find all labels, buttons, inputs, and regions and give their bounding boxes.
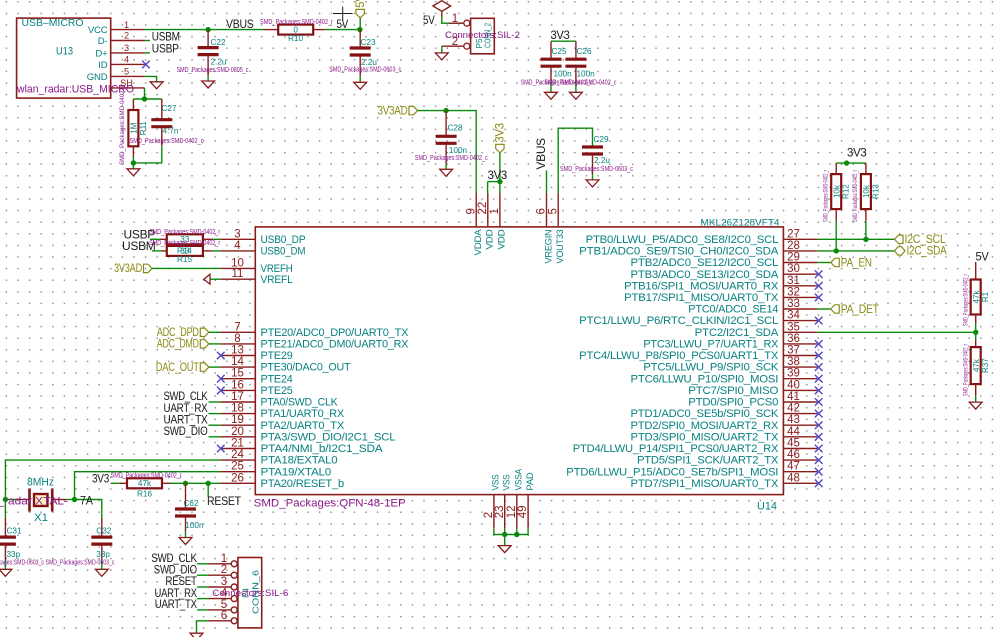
svg-text:PTC6/LLWU_P10/SPI0_MOSI: PTC6/LLWU_P10/SPI0_MOSI: [631, 373, 779, 385]
wire to ground: [132, 163, 134, 169]
no-connect pin44: [815, 433, 823, 441]
ground R37: [969, 402, 982, 409]
svg-text:1: 1: [452, 13, 458, 25]
svg-text:30: 30: [787, 263, 800, 275]
svg-text:R13: R13: [871, 184, 880, 199]
svg-text:PTA1/UART0_RX: PTA1/UART0_RX: [261, 408, 345, 420]
svg-text:3V3: 3V3: [847, 145, 867, 159]
svg-text:23: 23: [494, 506, 506, 519]
ground C22: [202, 81, 215, 88]
svg-text:R1: R1: [981, 291, 990, 302]
wire R12 top pin: [835, 163, 837, 174]
svg-text:UART_TX: UART_TX: [155, 597, 197, 611]
svg-text:13: 13: [231, 345, 244, 357]
global label ADC_DPD: [157, 327, 209, 339]
svg-text:PA_EN: PA_EN: [841, 257, 872, 269]
svg-text:PTA0/SWD_CLK: PTA0/SWD_CLK: [261, 397, 338, 409]
wire VSS2: [504, 529, 506, 535]
wire ADC_DMD to pin8: [209, 343, 221, 345]
no-connect pin42: [815, 410, 823, 418]
wire VOUT33 to C29: [558, 128, 592, 193]
svg-text:17: 17: [231, 391, 244, 403]
svg-text:wlan_radar:XTAL-: wlan_radar:XTAL-: [0, 496, 68, 508]
wire SH node horizontal: [133, 98, 161, 100]
svg-text:14: 14: [231, 356, 244, 368]
wire VBUS to VREGIN: [546, 170, 548, 193]
wire R1 bottom pin: [975, 315, 977, 324]
wire CON6 pin6 to ground: [197, 621, 209, 633]
global label I2C_SDA: [895, 246, 948, 258]
wire C29 to ground: [592, 174, 594, 180]
svg-text:SMD_Packages:SMD-0603_c: SMD_Packages:SMD-0603_c: [329, 65, 401, 74]
ground C32: [95, 569, 108, 576]
wire R14 right pin: [203, 238, 213, 240]
wire UART_TX: [209, 424, 221, 426]
svg-text:ADC_DMD: ADC_DMD: [157, 339, 199, 351]
wire R12 to I2C_SDA: [835, 221, 837, 251]
wire 3V3 to VDD pin1: [499, 153, 501, 193]
svg-text:31: 31: [787, 275, 800, 287]
svg-text:12: 12: [506, 506, 518, 519]
resistor R37: [963, 344, 990, 396]
wire R15 right pin: [203, 250, 213, 252]
svg-text:SMD_Packages:SMD-0402_r: SMD_Packages:SMD-0402_r: [963, 344, 969, 396]
svg-text:38: 38: [787, 356, 800, 368]
svg-text:VBUS: VBUS: [534, 138, 548, 170]
svg-text:VDD: VDD: [485, 229, 496, 249]
svg-text:SMD_Packages:SMD-0402_r: SMD_Packages:SMD-0402_r: [963, 274, 969, 326]
svg-text:D+: D+: [95, 48, 108, 59]
svg-text:SMD_Packages:SMD-0603_c: SMD_Packages:SMD-0603_c: [46, 558, 115, 567]
wire UART_RX: [209, 413, 221, 415]
ground C25: [545, 92, 558, 99]
ground CON1: [435, 53, 448, 60]
svg-text:VSS: VSS: [502, 475, 513, 491]
svg-text:SMD_Packages:SMD-0402_c: SMD_Packages:SMD-0402_c: [130, 136, 204, 145]
wire crystal right pin: [53, 499, 66, 501]
svg-text:SMD_Packages:QFN-48-1EP: SMD_Packages:QFN-48-1EP: [254, 498, 406, 510]
wire R37 bottom pin: [975, 384, 977, 395]
svg-text:5: 5: [547, 208, 559, 214]
ic U14 MKL26Z128VFT4: [220, 193, 817, 529]
CON6 pin numbers: [221, 553, 228, 622]
wire SWD_CLK: [209, 401, 221, 403]
no-connect pin36: [815, 340, 823, 348]
svg-text:22: 22: [477, 202, 489, 215]
no-connect pin38: [815, 363, 823, 371]
wire SWD_CLK CON6: [197, 563, 208, 565]
ground C62: [179, 538, 192, 545]
junction VSS: [502, 532, 507, 537]
svg-text:SMD_Packages:SMD-0402_r: SMD_Packages:SMD-0402_r: [120, 85, 126, 165]
svg-text:R15: R15: [177, 255, 192, 264]
junction crystal right / C32: [72, 497, 77, 502]
svg-text:USB–MICRO: USB–MICRO: [22, 18, 84, 29]
junction crystal left / C31: [3, 497, 8, 502]
svg-text:100n: 100n: [185, 521, 204, 530]
no-connect pin32: [815, 294, 823, 302]
wire C26 to ground: [575, 81, 577, 92]
global label 3V3AD at VREFH: [114, 263, 152, 275]
resistor R14: [167, 234, 203, 244]
svg-text:PTB3/ADC0_SE13/I2C0_SDA: PTB3/ADC0_SE13/I2C0_SDA: [631, 269, 780, 281]
svg-text:C28: C28: [448, 124, 463, 133]
svg-text:4.7n: 4.7n: [163, 126, 179, 135]
svg-text:7: 7: [234, 321, 240, 333]
wire VBUS from U13 pin1 to R10: [145, 29, 265, 31]
svg-text:47k: 47k: [972, 290, 981, 304]
svg-text:PTB0/LLWU_P5/ADC0_SE8/I2C0_SCL: PTB0/LLWU_P5/ADC0_SE8/I2C0_SCL: [586, 234, 779, 246]
svg-text:C25: C25: [552, 47, 567, 56]
wire R11 to junction: [132, 157, 134, 163]
svg-text:SMD_Packages:SMD-0402_r: SMD_Packages:SMD-0402_r: [260, 17, 333, 26]
wire 3V3 to R16: [111, 482, 120, 484]
wire R15 to pin4: [213, 250, 220, 252]
svg-text:PTD2/SPI0_MOSI/UART2_RX: PTD2/SPI0_MOSI/UART2_RX: [631, 420, 779, 432]
wire 5V label to node: [359, 18, 361, 30]
svg-text:PTC1/LLWU_P6/RTC_CLKIN/I2C1_SC: PTC1/LLWU_P6/RTC_CLKIN/I2C1_SCL: [579, 315, 778, 327]
global label 3V3AD: [378, 105, 418, 117]
global label PA_EN: [831, 257, 872, 269]
svg-text:DAC_OUT: DAC_OUT: [156, 362, 199, 374]
global label PA_DET: [831, 304, 879, 316]
wire R37 to ground: [975, 395, 977, 402]
svg-text:47k: 47k: [138, 479, 152, 488]
resistor R16: [127, 478, 162, 488]
svg-text:PTE25: PTE25: [261, 385, 293, 397]
svg-text:6: 6: [221, 610, 227, 622]
svg-text:PTC3/LLWU_P7/UART1_RX: PTC3/LLWU_P7/UART1_RX: [643, 339, 778, 351]
no-connect pin41: [815, 398, 823, 406]
svg-text:4: 4: [124, 55, 129, 65]
ground U13 GND: [150, 82, 163, 89]
capacitor C26: [565, 41, 595, 81]
svg-text:45: 45: [787, 438, 800, 450]
svg-text:USBP: USBP: [152, 42, 179, 56]
svg-text:USB0_DM: USB0_DM: [261, 246, 306, 258]
capacitor C28: [415, 111, 488, 164]
ground C26: [570, 92, 583, 99]
no-connect pin34: [815, 317, 823, 325]
wire RESET label drop: [207, 483, 209, 497]
ground VREFL: [204, 274, 210, 284]
wire R15 left pin: [162, 250, 167, 252]
svg-text:D-: D-: [98, 36, 108, 47]
svg-text:C22: C22: [211, 38, 226, 47]
svg-text:5V: 5V: [976, 250, 989, 264]
no-connect pin45: [815, 445, 823, 453]
global label 5V: [355, 0, 367, 18]
ground C31: [0, 569, 12, 576]
wire crystal left pin: [17, 499, 29, 501]
svg-text:6: 6: [536, 208, 548, 214]
wire R11 bottom pin: [132, 146, 134, 157]
junction VBUS / C22: [205, 27, 210, 32]
global label 3V3 vertical: [495, 123, 507, 153]
svg-text:32: 32: [787, 286, 800, 298]
svg-text:19: 19: [231, 414, 244, 426]
svg-text:wlan_radar:USB_MICRO: wlan_radar:USB_MICRO: [16, 84, 134, 96]
svg-text:PTB17/SPI1_MISO/UART0_TX: PTB17/SPI1_MISO/UART0_TX: [624, 292, 778, 304]
svg-text:1: 1: [124, 20, 129, 30]
svg-text:PTD5/SPI1_SCK/UART2_TX: PTD5/SPI1_SCK/UART2_TX: [637, 455, 778, 467]
svg-text:47k: 47k: [972, 358, 981, 372]
junction RESET/C62: [183, 481, 188, 486]
svg-text:1: 1: [489, 208, 501, 214]
svg-text:PTC5/LLWU_P9/SPI0_SCK: PTC5/LLWU_P9/SPI0_SCK: [643, 362, 778, 374]
svg-text:PTB1/ADC0_SE9/TSI0_CH0/I2C0_SD: PTB1/ADC0_SE9/TSI0_CH0/I2C0_SDA: [579, 246, 779, 258]
connector CON6 Conn_01x06: [209, 553, 289, 628]
svg-text:Connectors:SIL-2: Connectors:SIL-2: [445, 30, 520, 40]
svg-text:49: 49: [517, 506, 529, 519]
svg-text:39: 39: [787, 368, 800, 380]
svg-text:PTD6/LLWU_P15/ADC0_SE7b/SPI1_M: PTD6/LLWU_P15/ADC0_SE7b/SPI1_MOSI: [566, 466, 778, 478]
svg-text:8: 8: [234, 333, 240, 345]
wire R14 left pin: [160, 238, 167, 240]
U13 pin numbers: [120, 20, 133, 88]
svg-text:36: 36: [787, 333, 800, 345]
wire C25 to ground: [550, 81, 552, 92]
wire R13 top pin: [865, 163, 867, 174]
svg-text:C29: C29: [594, 135, 609, 144]
svg-text:5V: 5V: [423, 13, 435, 27]
wire C23 to ground: [359, 76, 361, 82]
svg-text:USB0_DP: USB0_DP: [261, 234, 306, 246]
wire ADC_DPD to pin7: [209, 331, 221, 333]
svg-text:PTA18/EXTAL0: PTA18/EXTAL0: [261, 455, 338, 467]
svg-text:VBUS: VBUS: [226, 17, 254, 31]
resistor R15: [167, 246, 203, 256]
svg-text:PTD1/ADC0_SE5b/SPI0_SCK: PTD1/ADC0_SE5b/SPI0_SCK: [631, 408, 779, 420]
no-connect pin39: [815, 375, 823, 383]
svg-text:PTC7/SPI0_MISO: PTC7/SPI0_MISO: [688, 385, 778, 397]
global label I2C_SCL: [895, 234, 947, 246]
wire R37 top pin: [975, 340, 977, 347]
wire R13 bottom pin: [865, 209, 867, 221]
svg-text:PTE24: PTE24: [261, 373, 293, 385]
wire to ground: [504, 535, 506, 546]
wire RESET net to pin26: [171, 482, 221, 484]
svg-text:3V3: 3V3: [92, 472, 110, 486]
wire 3V3AD to VREFH: [152, 267, 220, 269]
capacitor C25: [541, 41, 573, 81]
svg-text:8MHz: 8MHz: [27, 477, 54, 489]
wire C27 top pin: [161, 99, 163, 120]
wire U13 SH down: [144, 88, 146, 99]
svg-text:10k: 10k: [862, 184, 871, 198]
svg-text:1M: 1M: [130, 122, 139, 133]
svg-text:ID: ID: [98, 60, 107, 71]
wire R10 right pin: [313, 29, 325, 31]
svg-text:PTA4/NMI_b/I2C1_SDA: PTA4/NMI_b/I2C1_SDA: [261, 443, 384, 455]
svg-text:VSS: VSS: [491, 475, 502, 491]
svg-text:VDD: VDD: [497, 229, 508, 249]
svg-text:PTE30/DAC0_OUT: PTE30/DAC0_OUT: [261, 362, 352, 374]
wire DAC_OUT to pin14: [209, 366, 221, 368]
wire C22 to ground: [207, 75, 209, 81]
ground R11/C27: [127, 169, 140, 176]
wire pin35 to R1/R37: [817, 331, 975, 333]
wire VREFL to ground: [210, 278, 220, 280]
svg-text:PTD0/SPI0_PCS0: PTD0/SPI0_PCS0: [688, 397, 778, 409]
junction 3V3/VDD: [497, 179, 502, 184]
svg-text:41: 41: [787, 391, 800, 403]
svg-text:33: 33: [787, 298, 800, 310]
svg-text:43: 43: [787, 414, 800, 426]
wire RESET CON6: [197, 586, 208, 588]
svg-text:3V3: 3V3: [495, 123, 507, 143]
wire I2C_SCL: [817, 238, 894, 240]
svg-text:PTB16/SPI1_MOSI/UART0_RX: PTB16/SPI1_MOSI/UART0_RX: [624, 280, 778, 292]
junction 3V3 power: [844, 160, 849, 165]
svg-text:10k: 10k: [832, 184, 841, 198]
no-connect pin21: [217, 445, 225, 453]
resistor R13: [853, 170, 880, 222]
wire 3V3AD to VDDA: [418, 111, 477, 193]
capacitor C32: [91, 518, 112, 560]
no-connect pin43: [815, 421, 823, 429]
ground CON6: [190, 633, 203, 640]
U14 pin numbers: [231, 202, 800, 519]
svg-text:ADC_DPD: ADC_DPD: [157, 327, 199, 339]
no-connect pin37: [815, 352, 823, 360]
svg-text:PTE20/ADC0_DP0/UART0_TX: PTE20/ADC0_DP0/UART0_TX: [261, 327, 409, 339]
ground C28: [440, 169, 453, 176]
svg-text:GND: GND: [87, 72, 108, 83]
svg-text:27: 27: [787, 228, 800, 240]
svg-text:37: 37: [787, 345, 800, 357]
svg-text:29: 29: [787, 252, 800, 264]
svg-text:PTA20/RESET_b: PTA20/RESET_b: [261, 478, 345, 490]
wire USBM stub: [145, 40, 151, 42]
svg-text:PTE29: PTE29: [261, 350, 293, 362]
global label DAC_OUT: [156, 362, 209, 374]
wire R10 to 5V node: [325, 29, 360, 31]
svg-text:PTA19/XTAL0: PTA19/XTAL0: [261, 466, 332, 478]
svg-text:VREGIN: VREGIN: [543, 229, 554, 263]
svg-text:9: 9: [465, 208, 477, 214]
svg-text:PTB2/ADC0_SE12/I2C0_SCL: PTB2/ADC0_SE12/I2C0_SCL: [631, 257, 779, 269]
U14 pin names: [261, 229, 780, 491]
svg-text:25: 25: [231, 461, 244, 473]
capacitor C22: [177, 30, 249, 75]
svg-text:SMD_Packages:SMD-0402_r: SMD_Packages:SMD-0402_r: [824, 170, 830, 222]
wire R1 to junction: [975, 323, 977, 332]
svg-text:R37: R37: [981, 358, 990, 373]
resistor R10: [278, 25, 313, 35]
svg-text:18: 18: [231, 403, 244, 415]
svg-text:48: 48: [787, 472, 800, 484]
wire R16 right pin: [162, 482, 171, 484]
svg-text:C31: C31: [7, 527, 22, 536]
wire USBP stub: [145, 52, 151, 54]
svg-text:VREFL: VREFL: [261, 274, 293, 286]
no-connect pin15: [217, 375, 225, 383]
wire C32 to ground: [101, 560, 103, 569]
wire R11 top pin: [132, 99, 134, 110]
svg-text:SMD_Packages:SMD-0603_c: SMD_Packages:SMD-0603_c: [560, 164, 633, 173]
wire 5V to CON1 pin1: [442, 17, 463, 24]
svg-text:1: 1: [221, 553, 227, 565]
wire R16 left pin: [120, 482, 127, 484]
junction SH / R11 / C27: [142, 96, 147, 101]
wire R14 to pin3: [213, 238, 220, 240]
resistor R12: [824, 170, 851, 222]
svg-text:20: 20: [231, 426, 244, 438]
crystal X1: [0, 477, 93, 525]
svg-text:R11: R11: [139, 121, 148, 136]
wire to VDD pin22: [487, 182, 489, 193]
svg-text:44: 44: [787, 426, 800, 438]
wire EXTAL0 to crystal: [5, 460, 220, 499]
cursor crosshair: [333, 7, 353, 21]
wire XTAL0 to crystal: [75, 472, 221, 500]
svg-text:R16: R16: [137, 489, 152, 498]
svg-text:Connectors:SIL-6: Connectors:SIL-6: [212, 588, 288, 598]
svg-text:SMD_Packages:SMD-0402_r: SMD_Packages:SMD-0402_r: [111, 470, 182, 479]
svg-text:PTC2/I2C1_SDA: PTC2/I2C1_SDA: [695, 327, 780, 339]
svg-text:PTD4/LLWU_P14/SPI1_PCS0/UART2_: PTD4/LLWU_P14/SPI1_PCS0/UART2_RX: [573, 443, 779, 455]
svg-text:VSSA: VSSA: [514, 468, 525, 490]
wire UART_RX CON6: [197, 598, 208, 600]
wire R12 bottom pin: [835, 209, 837, 221]
svg-text:47: 47: [787, 461, 800, 473]
junction RESET label: [206, 481, 211, 486]
wire VSSA: [516, 529, 518, 535]
wire 3V3 C25-C26: [551, 40, 576, 42]
svg-text:PTC0/ADC0_SE14: PTC0/ADC0_SE14: [688, 304, 778, 316]
svg-text:26: 26: [231, 472, 244, 484]
wire to C32: [75, 500, 102, 519]
svg-text:SWD_DIO: SWD_DIO: [164, 424, 208, 438]
junction 5V/C23: [357, 27, 362, 32]
wire VSS bracket: [494, 529, 528, 535]
svg-text:2: 2: [124, 31, 129, 41]
capacitor C23: [329, 30, 401, 76]
svg-text:VDDA: VDDA: [473, 229, 484, 256]
svg-text:R12: R12: [842, 184, 851, 199]
connector CON1 Conn_01x02: [442, 13, 520, 54]
svg-text:28: 28: [787, 240, 800, 252]
wire UART_TX CON6: [197, 609, 208, 611]
resistor R11: [120, 85, 148, 165]
no-connect pin31: [815, 282, 823, 290]
svg-text:PTD7/SPI1_MISO/UART0_TX: PTD7/SPI1_MISO/UART0_TX: [631, 478, 779, 490]
svg-text:U14: U14: [757, 501, 777, 513]
svg-text:C32: C32: [96, 527, 111, 536]
junction 3V3AD/C28: [443, 108, 448, 113]
svg-text:46: 46: [787, 449, 800, 461]
ground C29: [586, 180, 599, 187]
wire C27 to junction: [133, 146, 161, 163]
svg-text:21: 21: [231, 438, 244, 450]
wire PA_DET: [817, 308, 830, 310]
wire R1 top pin: [975, 262, 977, 280]
svg-text:MKL26Z128VFT4: MKL26Z128VFT4: [701, 218, 780, 229]
svg-text:4: 4: [234, 240, 241, 252]
no-connect pin13: [217, 352, 225, 360]
wire R13 to I2C_SCL: [865, 221, 867, 239]
svg-text:X1: X1: [34, 512, 48, 524]
svg-text:PA_DET: PA_DET: [841, 304, 879, 316]
wire C62 to ground: [185, 531, 187, 538]
svg-text:2: 2: [221, 564, 227, 576]
capacitor C27: [130, 104, 204, 146]
svg-text:35: 35: [787, 321, 800, 333]
wire junction to R37: [975, 332, 977, 340]
wire CON1 pin2 to ground: [441, 46, 443, 53]
svg-text:RESET: RESET: [207, 494, 242, 508]
